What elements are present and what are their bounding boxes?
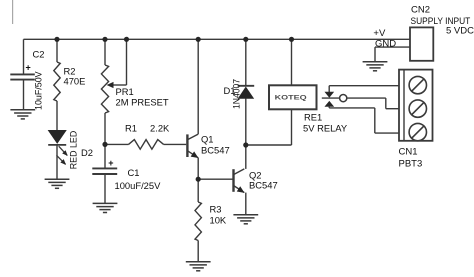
svg-text:CN1: CN1 <box>399 146 418 157</box>
svg-text:CN2: CN2 <box>411 5 430 16</box>
svg-text:5V RELAY: 5V RELAY <box>303 123 348 134</box>
svg-text:100uF/25V: 100uF/25V <box>115 180 162 191</box>
svg-text:470E: 470E <box>64 76 86 87</box>
svg-text:10K: 10K <box>210 215 227 226</box>
svg-text:KOTEQ: KOTEQ <box>275 95 307 101</box>
svg-text:5 VDC: 5 VDC <box>446 26 474 37</box>
svg-text:1N4007: 1N4007 <box>231 79 242 109</box>
svg-text:BC547: BC547 <box>249 180 278 191</box>
svg-text:2M PRESET: 2M PRESET <box>116 97 169 108</box>
svg-text:R3: R3 <box>210 204 222 215</box>
svg-text:Q1: Q1 <box>201 134 214 145</box>
svg-text:PR1: PR1 <box>116 86 134 97</box>
svg-text:D2: D2 <box>81 147 93 158</box>
svg-text:+: + <box>26 63 31 73</box>
svg-text:PBT3: PBT3 <box>399 158 423 169</box>
svg-text:RED LED: RED LED <box>68 131 79 170</box>
svg-text:RE1: RE1 <box>304 112 322 123</box>
svg-text:10uF/50V: 10uF/50V <box>33 71 44 110</box>
svg-text:GND: GND <box>375 38 396 49</box>
svg-text:C1: C1 <box>128 167 140 178</box>
svg-text:BC547: BC547 <box>201 145 230 156</box>
svg-text:+: + <box>108 158 113 168</box>
svg-text:R1: R1 <box>125 123 137 134</box>
svg-text:C2: C2 <box>33 49 45 60</box>
svg-text:2.2K: 2.2K <box>150 123 170 134</box>
